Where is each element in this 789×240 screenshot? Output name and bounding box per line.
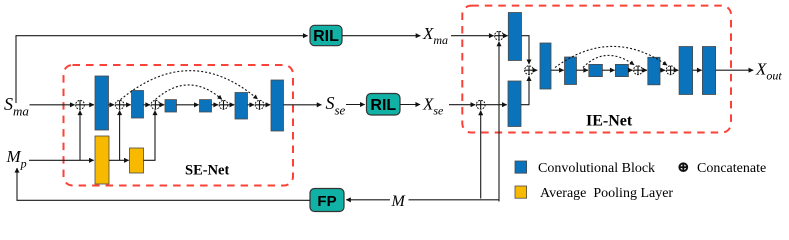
svg-text:Average Pooling Layer: Average Pooling Layer	[540, 186, 673, 201]
wire S_ma to concat 1	[30, 104, 75, 106]
legend conv block swatch	[515, 161, 527, 173]
wire S_se to RIL	[346, 104, 365, 106]
wire conv5 to concat 5	[248, 104, 255, 106]
wire concat2 to conv block 2	[124, 104, 130, 106]
wire X_ma to concat	[451, 35, 494, 37]
riser M to concat6	[480, 111, 482, 199]
concatenate 3	[151, 100, 160, 109]
convolutional block 3	[165, 100, 177, 112]
concatenate 1	[76, 100, 85, 109]
wire conv6 to S_se	[284, 104, 322, 106]
wire M to FP	[346, 199, 390, 201]
wire RIL to X_se	[400, 104, 420, 106]
wire M from risers	[409, 199, 500, 201]
convolutional block 2	[132, 91, 144, 119]
wire conv G to concat B	[660, 69, 665, 71]
wire conv3 to conv block 4	[177, 104, 199, 106]
wire top branch from S_ma up to RIL	[16, 36, 308, 103]
wire concat5 to conv block 6	[264, 104, 270, 106]
wire concat8 to conv C	[534, 69, 538, 71]
wire conv C to conv D	[551, 69, 564, 71]
concatenate 4	[219, 100, 228, 109]
wire conv B up to concat 8	[521, 76, 529, 104]
RIL block mid	[367, 94, 401, 116]
wire conv1 to concat 2	[109, 104, 115, 106]
convolutional block 6	[271, 80, 284, 131]
wire pool2 up to concat3	[144, 111, 156, 161]
svg-text:IE-Net: IE-Net	[586, 112, 633, 129]
convolutional block 4	[200, 100, 212, 112]
SE-Net dashed box	[64, 65, 294, 186]
convolutional block A	[508, 13, 521, 61]
skip arc concat3 to concat4	[156, 85, 222, 100]
convolutional block D	[565, 57, 577, 85]
wire concat6 to conv B	[485, 104, 506, 106]
svg-text:Concatenate: Concatenate	[697, 161, 766, 176]
convolutional block E	[589, 64, 603, 76]
concatenate 2	[115, 100, 124, 109]
concatenate 8	[525, 66, 534, 75]
average pooling layer 1	[95, 136, 109, 184]
FP block	[310, 189, 344, 212]
wire conv H to conv I	[693, 69, 702, 71]
concatenate 7 (X_ma + M)	[495, 31, 504, 40]
wire branch up to concat2	[119, 111, 121, 161]
svg-text:RIL: RIL	[370, 97, 396, 114]
convolutional block F	[615, 64, 628, 76]
convolutional block I	[702, 47, 715, 95]
convolutional block C	[540, 43, 551, 89]
wire conv I to X_out	[716, 69, 754, 71]
concatenate B	[666, 66, 675, 75]
IE-Net dashed box	[462, 6, 731, 133]
wire conv F to concat A	[628, 69, 632, 71]
wire conv D to conv E	[577, 69, 589, 71]
svg-text:Convolutional Block: Convolutional Block	[538, 161, 655, 176]
concatenate 6 (X_se + M)	[476, 100, 485, 109]
convolutional block G	[648, 57, 660, 85]
legend pooling swatch	[515, 186, 527, 198]
wire concat4 to conv block 5	[228, 104, 234, 106]
svg-text:RIL: RIL	[313, 28, 339, 45]
convolutional block 5	[235, 93, 248, 120]
wire concat1 to conv block 1	[85, 104, 94, 106]
wire concatB to conv H	[675, 69, 678, 71]
convolutional block H	[679, 47, 693, 95]
legend concatenate symbol	[679, 163, 687, 171]
wire conv E to conv F	[602, 69, 614, 71]
concatenate 5	[255, 100, 264, 109]
svg-text:M: M	[391, 193, 407, 210]
wire concat3 to conv block 3	[160, 104, 164, 106]
skip arc concat2 to concat5	[121, 71, 258, 100]
skip arc conv D to concat A	[583, 55, 634, 67]
wire conv2 to concat 3	[144, 104, 151, 106]
wire M_p to pool block 1	[29, 159, 94, 161]
wire conv A down to concat 8	[522, 36, 530, 64]
wire pool1 to pool2	[109, 159, 129, 161]
concatenate A	[634, 66, 643, 75]
wire concat7 to conv A	[504, 35, 508, 37]
svg-text:SE-Net: SE-Net	[185, 163, 229, 179]
wire FP return to M_p	[17, 168, 310, 200]
convolutional block 1	[95, 76, 109, 130]
wire branch up to concat1	[79, 111, 81, 161]
wire concatA to conv G	[643, 69, 647, 71]
riser M to concat7	[498, 42, 500, 202]
svg-text:FP: FP	[317, 193, 336, 210]
wire conv4 to concat 4	[212, 104, 219, 106]
skip arc conv C to concat B	[555, 46, 667, 67]
average pooling layer 2	[130, 148, 144, 173]
RIL block top	[310, 25, 342, 45]
wire RIL to X_ma	[342, 35, 420, 37]
wire X_se to concat 6	[449, 104, 475, 106]
convolutional block B	[508, 81, 521, 127]
